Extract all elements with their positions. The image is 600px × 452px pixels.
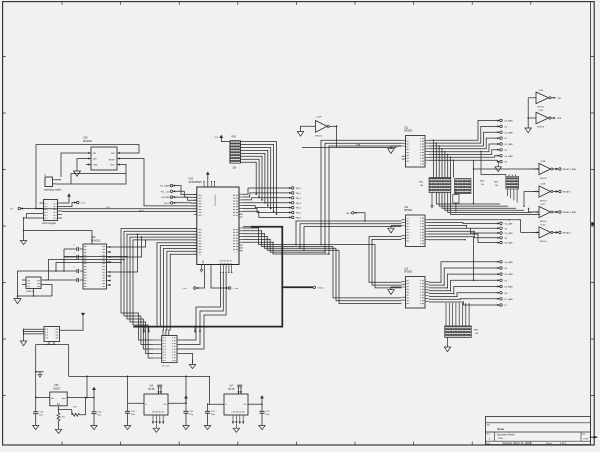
op-amp U15F 74HC04 inverter	[315, 117, 330, 138]
pin PCB_1	[313, 286, 316, 289]
svg-text:U15B: U15B	[541, 184, 546, 186]
capacitor C11	[168, 402, 186, 404]
svg-text:U15A: U15A	[541, 160, 546, 163]
svg-text:Vin: Vin	[51, 398, 54, 400]
ground (U13)	[155, 424, 157, 428]
svg-text:U10: U10	[189, 178, 194, 181]
pins D4..D7 column	[500, 261, 503, 264]
ground (U13)	[391, 287, 402, 290]
MCU left pin stubs	[194, 195, 197, 255]
op-amp U15B 74HC04 buffer	[539, 184, 553, 203]
wire bundle: RN2/RN3 outputs to buffer inputs	[436, 160, 540, 232]
connector B1 power in	[36, 371, 44, 373]
svg-text:S0_BAR: S0_BAR	[505, 223, 513, 226]
IC U11 SP5002	[402, 127, 430, 167]
svg-text:Urei: Urei	[499, 437, 504, 440]
op-amp U15D 74HC04 buffer	[539, 224, 553, 243]
svg-text:VCC: VCC	[215, 137, 220, 139]
wire: U15E input	[528, 97, 536, 99]
IC U20 touch pad decoder	[43, 327, 60, 347]
svg-text:MAX202: MAX202	[91, 239, 101, 242]
wire: nested corners to serial bundle	[45, 249, 127, 280]
svg-text:TM 05: TM 05	[148, 389, 155, 391]
wire: U15E output	[551, 97, 555, 99]
wire: J3 to ground	[177, 354, 193, 364]
wire: staircase drop to RN6	[446, 303, 469, 326]
MCU top power stubs and VCC	[206, 172, 210, 175]
wire bundle: MCU control lines staircase to band	[243, 228, 375, 254]
svg-text:Free: Free	[498, 427, 505, 431]
crystal Y (U17)	[237, 385, 242, 387]
svg-text:e_rst: e_rst	[81, 202, 86, 205]
ground (program connector)	[23, 236, 25, 241]
svg-text:PLL_CLK: PLL_CLK	[161, 191, 171, 193]
pin P1	[18, 207, 21, 210]
wire: U15A input	[533, 168, 539, 170]
pins S0..S2 middle column	[429, 223, 500, 243]
wire: U15D input	[533, 231, 539, 233]
wire: U15F input	[528, 117, 536, 119]
wire: U11 outputs staircase up to D pin circles	[429, 121, 500, 162]
svg-text:DOUT: DOUT	[164, 203, 171, 205]
svg-text:PCB_1: PCB_1	[318, 287, 325, 289]
svg-text:PLL_DATA: PLL_DATA	[160, 185, 171, 188]
pin RELAY2_BAR	[553, 211, 558, 213]
svg-text:LM317: LM317	[53, 388, 61, 391]
resistor R19 (horizontal)	[58, 409, 59, 410]
wire: P1 to connector	[21, 208, 44, 210]
ground (RN area)	[497, 162, 499, 167]
IC U12 SP5002	[402, 207, 430, 247]
resistor network RN6	[445, 326, 480, 338]
svg-text:U12: U12	[404, 207, 409, 209]
svg-text:watchdog enable: watchdog enable	[44, 189, 62, 192]
ground (C14)	[35, 421, 37, 426]
ground (inverter pair)	[525, 128, 531, 133]
svg-text:SP5002: SP5002	[404, 272, 413, 274]
svg-text:U13: U13	[404, 268, 409, 270]
wire: RESET pin to MCU reset net	[122, 159, 197, 206]
svg-text:RN1: RN1	[232, 137, 237, 139]
svg-text:Size: Size	[582, 434, 586, 436]
wire: touch pad bottom loop	[36, 342, 69, 398]
ground (watchdog WDI)	[74, 171, 81, 176]
svg-text:AT90S8515: AT90S8515	[214, 194, 217, 206]
ground (C15)	[93, 421, 95, 426]
svg-text:74HC04: 74HC04	[540, 200, 547, 202]
svg-text:Document Folder: Document Folder	[497, 433, 515, 436]
wire: U12 row drop to lower pin row	[429, 237, 474, 280]
svg-text:VCR program: VCR program	[42, 222, 56, 225]
op-amp U15E 74HC04 inverter	[536, 90, 551, 108]
svg-text:U17: U17	[229, 386, 234, 388]
capacitor C14	[35, 398, 37, 412]
wire: risers from band up to U11 left pins	[321, 140, 402, 254]
svg-text:U15D: U15D	[541, 224, 546, 226]
svg-text:RELAY2: RELAY2	[563, 232, 572, 235]
svg-text:File:: File:	[486, 443, 491, 445]
wire: U13 bottom pins	[153, 415, 163, 422]
wire: U12 row0 to buffer D	[429, 220, 521, 233]
svg-text:Out: Out	[163, 403, 167, 406]
IC U16 LM317	[50, 384, 67, 406]
wire: U12 last row stub	[429, 239, 466, 241]
wire: U13 output staircase to D4..D7 pins	[429, 262, 500, 305]
power VCC (U13)	[184, 395, 188, 398]
resistor network RN3	[455, 179, 472, 194]
fuse F1	[453, 195, 459, 204]
wire: U15F output	[551, 117, 555, 119]
pins PLL_DATA / PLL_CLK / LOGGER / DOUT	[170, 184, 173, 187]
svg-text:RELAY1: RELAY1	[563, 191, 572, 194]
wire: inverter input to ground	[301, 126, 316, 131]
svg-text:RELAY2_BAR: RELAY2_BAR	[563, 211, 577, 214]
pin RELAY1_BAR	[553, 168, 558, 170]
connector J6 RFM	[22, 277, 45, 293]
IC U19 MAX202	[83, 236, 107, 289]
wire: WDO loop back	[56, 165, 126, 185]
resistor network RN1 10k	[230, 137, 241, 170]
pin x_tal1	[196, 270, 204, 289]
capacitor C10	[128, 402, 145, 404]
wire: left vertical rail from watchdog loop	[35, 145, 37, 210]
wire: thick highlighted net	[243, 226, 251, 228]
wire: SCK bus	[36, 208, 197, 210]
svg-text:WDO: WDO	[110, 165, 115, 167]
pin RELAY1	[553, 191, 558, 193]
wire: LM317 output	[67, 397, 94, 399]
svg-text:1 of 1: 1 of 1	[560, 442, 567, 445]
op-amp U15A 74HC04 buffer	[539, 160, 553, 180]
svg-text:J3 conn: J3 conn	[162, 365, 170, 367]
svg-text:Rev: Rev	[486, 434, 489, 436]
svg-text:D2_BAR: D2_BAR	[505, 143, 514, 146]
svg-text:D5_BAR: D5_BAR	[505, 273, 514, 276]
wire: bottom power rail	[69, 375, 210, 377]
wire: inverter output	[329, 125, 336, 127]
svg-text:RELAY1_BAR: RELAY1_BAR	[563, 168, 577, 171]
svg-text:c_out: c_out	[233, 287, 239, 290]
wire bundle B1: MCU left pins to JP header	[121, 229, 197, 359]
ground (RS232)	[14, 299, 21, 304]
power VCC at LM317 output	[92, 387, 96, 390]
svg-text:RESET: RESET	[109, 160, 116, 162]
svg-text:GND: GND	[93, 165, 98, 167]
resistor network RN4	[480, 176, 519, 189]
svg-text:D6_BAR: D6_BAR	[505, 286, 514, 289]
svg-text:RXA: RXA	[356, 143, 361, 146]
svg-text:U15E: U15E	[539, 90, 544, 92]
svg-text:PA_6: PA_6	[296, 217, 302, 220]
connector J4 watchdog enable	[44, 175, 61, 187]
svg-text:Out: Out	[243, 403, 247, 406]
svg-text:x_tal: x_tal	[182, 287, 187, 290]
wire bundle B2: MCU left lower pins down to JP header top	[157, 243, 197, 336]
svg-text:74HC04: 74HC04	[315, 135, 323, 137]
pins D0..D3 column	[500, 119, 503, 122]
IC U18 MAX811 supervisor	[83, 137, 122, 170]
wire: RN2 bottom stem	[431, 193, 433, 206]
svg-text:SCK: SCK	[106, 207, 111, 209]
svg-text:PA_5: PA_5	[296, 212, 302, 215]
wire: risers from band up to U12 left pins	[296, 221, 402, 250]
svg-text:PA_3: PA_3	[296, 202, 302, 205]
resistor R20 (adj vertical)	[58, 406, 60, 413]
wire: MR pin to enable jumper	[61, 153, 86, 177]
svg-text:MAX811: MAX811	[83, 140, 93, 143]
no-connect stubs from thick net	[143, 327, 145, 331]
ground (U12)	[391, 226, 402, 229]
title block	[486, 416, 591, 445]
svg-text:MISO: MISO	[139, 210, 145, 212]
svg-text:PA_2: PA_2	[296, 197, 302, 200]
wire: daisy chain U12 bottom pins to U13 top pins	[369, 237, 402, 286]
svg-text:SP5002: SP5002	[404, 131, 413, 133]
svg-text:U15F: U15F	[317, 117, 323, 119]
svg-text:TM 05: TM 05	[228, 389, 235, 391]
svg-text:Vout: Vout	[62, 397, 66, 400]
wire: rail risers	[87, 376, 210, 404]
wire: MAX202 cap nets left	[18, 249, 73, 299]
capacitor C15	[93, 398, 95, 412]
svg-text:U15C: U15C	[541, 204, 546, 206]
wire: taps from U11 rows down into RN2/RN3	[434, 140, 454, 177]
svg-text:PCB: PCB	[584, 438, 589, 440]
svg-text:Sheet: Sheet	[546, 442, 552, 445]
MAX202 right side pins	[107, 246, 112, 248]
IC U10 AT90S8515 MCU	[189, 178, 240, 265]
svg-text:D7_BAR: D7_BAR	[505, 298, 514, 301]
ground (U15F input)	[297, 132, 303, 137]
wire: J5 ground loop	[24, 218, 93, 244]
svg-text:PA_7: PA_7	[346, 212, 352, 215]
wire RXA	[302, 146, 402, 148]
svg-text:S2_BAR: S2_BAR	[505, 242, 513, 245]
pin reset out	[76, 201, 79, 204]
svg-text:AT90S8515: AT90S8515	[189, 181, 203, 184]
power VCC (U17)	[260, 395, 264, 398]
inner right border line	[590, 2, 592, 445]
ground (R20)	[58, 424, 60, 429]
wire: J5 left pins staircase	[27, 214, 40, 219]
wire fan: RN1 pull-ups down to PA rows	[240, 142, 276, 215]
power VCC at J5	[67, 193, 71, 196]
junction dots: B2 stubs onto thick net	[156, 326, 158, 328]
wire: LM317 input	[36, 397, 50, 399]
svg-text:PA_0: PA_0	[296, 187, 302, 190]
svg-text:74HC04: 74HC04	[537, 106, 544, 108]
svg-text:LOGGER: LOGGER	[161, 197, 170, 199]
ground (U17)	[235, 424, 237, 428]
crystal Y (U13)	[157, 385, 162, 387]
wire: WDI pin to ground	[77, 159, 86, 172]
svg-text:D4_BAR: D4_BAR	[505, 261, 514, 264]
resistor network RN2	[419, 178, 451, 193]
wire: U17 bottom pins	[233, 415, 243, 422]
svg-text:PA_1: PA_1	[296, 192, 302, 195]
border marker square	[591, 222, 594, 225]
border zone tick marks top/bottom	[62, 2, 531, 445]
IC U13 oscillator	[144, 386, 168, 416]
wire: inverter shared input rail	[527, 98, 529, 128]
IC U13 SP5002	[402, 268, 430, 308]
svg-text:U13: U13	[149, 386, 154, 388]
sheet edge arrow	[590, 436, 598, 438]
wire bundle: MCU bottom pins around to J3 right pins	[177, 273, 226, 350]
power flag at touch pad	[81, 313, 85, 316]
svg-text:D3_BAR: D3_BAR	[505, 155, 514, 158]
MCU right pin stubs	[239, 194, 243, 251]
wire: RN4 bottom fan	[508, 189, 518, 203]
svg-text:Saturday, March 13, 1999: Saturday, March 13, 1999	[503, 442, 531, 445]
svg-text:TXB: TXB	[557, 98, 562, 100]
connector J3 header	[153, 336, 177, 368]
IC U17 oscillator	[224, 386, 248, 416]
ground (touch pad)	[20, 341, 26, 346]
svg-text:D0_BAR: D0_BAR	[505, 120, 514, 123]
wire: MISO bus	[62, 211, 197, 213]
wire: touch pad left pins to ground	[24, 329, 45, 334]
capacitor C13	[248, 403, 262, 405]
svg-text:PA_4: PA_4	[296, 207, 302, 210]
connector J5 VCR program	[40, 200, 63, 226]
svg-text:In: In	[226, 404, 228, 406]
wire: U15B input	[533, 191, 539, 193]
svg-text:74HC04: 74HC04	[537, 127, 544, 129]
ground (U11)	[391, 146, 402, 149]
svg-text:WDI: WDI	[93, 159, 97, 161]
wire: band drops to U13 left pins	[333, 245, 402, 304]
svg-text:In: In	[146, 404, 148, 406]
ground (J3)	[192, 360, 194, 365]
wire: RFM ground loop	[18, 285, 53, 297]
svg-text:74HC04: 74HC04	[540, 221, 547, 223]
wire: U15C input	[533, 211, 539, 213]
svg-text:74HC04: 74HC04	[540, 178, 547, 180]
pins PA_0..PA_6	[243, 188, 292, 194]
svg-text:SP5002: SP5002	[404, 210, 413, 212]
svg-text:74HC04: 74HC04	[540, 241, 547, 243]
border zone tick marks left/right	[3, 57, 595, 396]
op-amp U15C 74HC04 buffer	[539, 204, 553, 223]
capacitor C12	[208, 403, 225, 405]
svg-text:S1_BAR: S1_BAR	[505, 232, 513, 235]
svg-text:RXB: RXB	[557, 118, 562, 120]
pin c_out	[211, 269, 228, 289]
svg-text:D1_BAR: D1_BAR	[505, 131, 514, 134]
capacitors C1-C4 at MAX202 left	[80, 248, 83, 250]
op-amp U15F 74HC04 inverter	[536, 110, 551, 128]
pin RELAY2	[553, 231, 558, 233]
wire: MAX202 TX/RX risers to MCU bundle	[111, 234, 146, 272]
pin PA_7	[352, 212, 355, 215]
MCU bottom stubs (XTAL etc)	[202, 265, 212, 270]
ground (RN6)	[447, 338, 449, 348]
wire: watchdog top loop	[36, 145, 139, 154]
wire: jog into RN4 top	[481, 152, 515, 177]
